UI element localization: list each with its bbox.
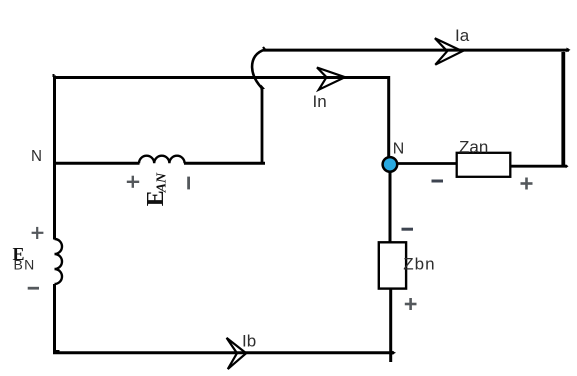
wire: neutral horizontal (In) from left bus to right vertical xyxy=(53,76,390,79)
svg-text:Ia: Ia xyxy=(455,26,470,45)
wire: tiny tick at bottom wire junction xyxy=(392,351,396,355)
arrow Ia (open arrowhead on top wire) xyxy=(435,38,463,64)
wire: small blob at bottom-left corner xyxy=(56,350,60,353)
svg-text:Ib: Ib xyxy=(242,332,256,351)
inductor EAN (3 humps bulging up) xyxy=(139,156,185,164)
svg-text:In: In xyxy=(313,92,327,111)
polarity + above EBN inductor xyxy=(32,227,44,239)
svg-text:Zan: Zan xyxy=(459,137,488,156)
wire: left vertical bus (A-phase left side) xyxy=(53,76,56,240)
wire: far right vertical xyxy=(561,52,565,168)
polarity + below Zbn xyxy=(405,298,417,310)
wire hop: small arrow tip at arc bottom xyxy=(260,85,265,90)
wire: top horizontal (Ia) xyxy=(264,49,570,52)
inductor EBN (3 humps bulging right on left bus) xyxy=(55,239,63,284)
wire: tiny arrow tip at right end of top wire xyxy=(567,48,571,53)
wire: node N to Zan box xyxy=(395,162,458,165)
resistor Zbn (box) xyxy=(379,242,406,288)
polarity − right of EAN inductor (rotated, shown vertical) xyxy=(187,177,190,190)
wire: EAN branch horizontal right segment xyxy=(184,162,265,165)
polarity − below EBN inductor xyxy=(28,287,39,290)
wire: top-left corner tick xyxy=(53,74,55,77)
wire: tiny tick at top of right vertical xyxy=(562,52,566,55)
polarity − above Zbn xyxy=(402,228,414,231)
svg-text:Zbn: Zbn xyxy=(403,255,435,274)
svg-text:EAN: EAN xyxy=(143,172,169,206)
node N (blue junction dot) xyxy=(383,157,398,172)
wire hop: small tick at arc top xyxy=(263,47,265,50)
polarity − left of Zan xyxy=(432,180,444,183)
wire: bottom horizontal (Ib) xyxy=(53,351,394,354)
wire: Zan box to right vertical xyxy=(510,165,567,168)
wire: vertical from EAN branch up to hop xyxy=(261,88,264,165)
resistor Zan (box) xyxy=(457,153,511,177)
polarity + left of EAN inductor xyxy=(127,176,139,188)
arrow In (open arrowhead on neutral wire) xyxy=(317,68,345,90)
polarity + right of Zan xyxy=(521,178,533,190)
wire: EAN branch horizontal left segment xyxy=(53,162,140,165)
arrow Ib (open arrowhead on bottom wire) xyxy=(227,338,247,369)
wire: left vertical bus lower part below EBN source xyxy=(53,284,56,354)
svg-text:N: N xyxy=(393,141,405,158)
wire: vertical drop from In wire to node N xyxy=(387,76,390,160)
wire hop: arc jumping over the In wire xyxy=(252,50,265,89)
svg-text:N: N xyxy=(31,148,42,165)
wire: vertical from Zbn box down past bottom wire xyxy=(389,288,392,362)
wire: tiny tick at right end of Zan wire xyxy=(566,164,569,168)
wire: vertical from node N down to Zbn box xyxy=(389,169,392,243)
svg-text:BN: BN xyxy=(14,257,36,273)
